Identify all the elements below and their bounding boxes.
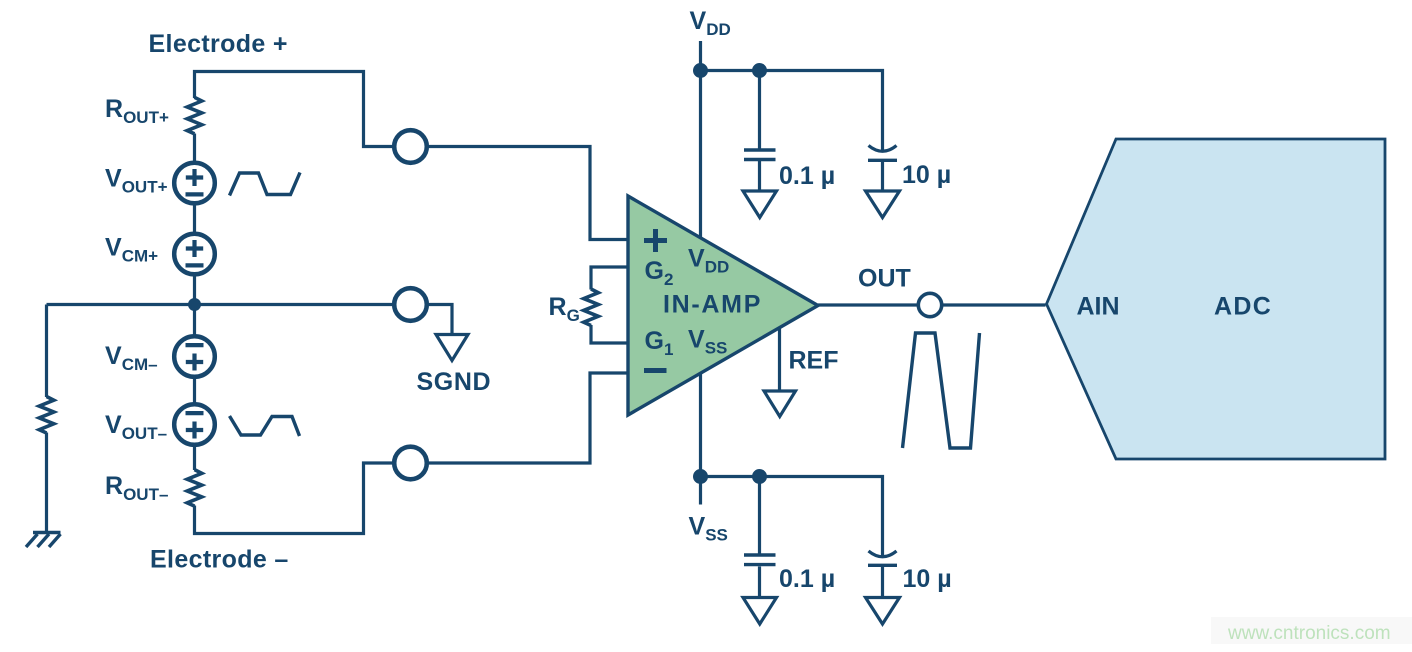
junction dot VSS right <box>752 469 767 484</box>
wire bottom 0.1u cap to ground <box>758 567 761 600</box>
wire left vertical lower to ground <box>45 433 48 534</box>
wire Vout- to Rout- <box>193 447 196 471</box>
wire left vertical upper <box>45 305 48 398</box>
op-amp U1 IN-AMP triangle <box>628 196 818 415</box>
svg-text:VCM–: VCM– <box>105 342 158 374</box>
wire VDD to 0.1u cap <box>758 71 761 149</box>
wire VDD stub into amp <box>699 41 702 239</box>
svg-text:REF: REF <box>789 347 839 375</box>
wire mid horizontal line <box>47 303 393 306</box>
junction dot mid <box>188 298 201 311</box>
connector circle top <box>394 130 427 163</box>
svg-text:Electrode +: Electrode + <box>149 30 288 58</box>
connector circle OUT <box>918 293 941 316</box>
svg-text:ADC: ADC <box>1214 293 1272 321</box>
wire Vout+ to Vcm+ <box>193 205 196 233</box>
svg-text:VDD: VDD <box>690 7 731 39</box>
svg-text:0.1 µ: 0.1 µ <box>779 162 835 190</box>
wire electrode+ top loop <box>195 72 393 147</box>
svg-text:VOUT–: VOUT– <box>105 411 167 443</box>
wire AIN <box>943 303 1046 306</box>
resistor ROUT- <box>187 470 202 507</box>
svg-text:VCM+: VCM+ <box>105 234 158 266</box>
svg-text:AIN: AIN <box>1077 293 1120 321</box>
svg-text:ROUT+: ROUT+ <box>105 95 169 127</box>
capacitor C bottom 10u plates <box>869 551 897 557</box>
wire from - connector to in-amp - input <box>429 373 628 463</box>
wire RG bottom bracket <box>591 325 628 343</box>
wire VSS to bottom 0.1u cap <box>758 477 761 554</box>
svg-text:VOUT+: VOUT+ <box>105 165 168 197</box>
source VOUT- (reversed) <box>174 404 215 445</box>
svg-text:RG: RG <box>549 293 580 325</box>
ground triangle top 0.1u <box>743 191 777 218</box>
wire 0.1u top cap to ground <box>758 161 761 193</box>
junction dot VSS left <box>693 469 708 484</box>
svg-text:VSS: VSS <box>689 513 728 545</box>
waveform trapezoid positive <box>230 173 301 196</box>
ground triangle top 10u <box>866 191 900 218</box>
svg-text:ROUT–: ROUT– <box>105 472 168 504</box>
svg-text:IN-AMP: IN-AMP <box>663 291 762 319</box>
connector circle bottom <box>394 447 427 480</box>
wire electrode- bottom loop <box>195 463 393 534</box>
svg-text:Electrode –: Electrode – <box>150 546 289 574</box>
junction dot VDD left <box>693 63 708 78</box>
resistor left (electrode impedance) <box>39 397 54 434</box>
wire junction to Vcm- <box>193 305 196 335</box>
wire Vcm- to Vout- <box>193 379 196 403</box>
wire mid connector to SGND <box>429 305 452 337</box>
wire Rout+ to Vout+ <box>193 134 196 162</box>
source VCM- (reversed) <box>174 336 215 377</box>
resistor ROUT+ <box>187 97 202 134</box>
svg-text:SGND: SGND <box>417 368 492 396</box>
wire from + connector to in-amp + input <box>429 147 628 240</box>
wire Vcm+ to mid junction <box>193 276 196 305</box>
wire OUT <box>818 303 917 306</box>
wire bottom 10u cap to ground <box>881 567 884 601</box>
source VCM+ <box>174 234 215 275</box>
ground triangle bottom 0.1u <box>743 598 777 625</box>
capacitor C bottom 0.1u plates <box>744 555 776 565</box>
watermark background <box>1211 617 1412 644</box>
wire 10u top cap to ground <box>881 162 884 195</box>
waveform square at OUT <box>903 333 980 448</box>
junction dot VDD right <box>752 63 767 78</box>
svg-text:OUT: OUT <box>858 265 911 293</box>
wire VSS from amp <box>699 373 702 505</box>
ground triangle REF <box>764 391 796 417</box>
chassis ground left <box>26 533 61 548</box>
wire RG top bracket <box>591 267 628 290</box>
in-amp plus input symbol <box>644 229 667 252</box>
svg-text:www.cntronics.com: www.cntronics.com <box>1227 623 1391 644</box>
SGND ground triangle <box>436 335 468 361</box>
ground triangle bottom 10u <box>866 598 900 625</box>
waveform trapezoid negative <box>230 416 300 436</box>
svg-text:10 µ: 10 µ <box>903 565 952 593</box>
wire REF pin <box>778 328 781 393</box>
ADC block <box>1047 139 1386 459</box>
source VOUT+ <box>174 163 215 204</box>
wire VSS rail <box>701 477 883 558</box>
wire VDD rail <box>701 71 883 153</box>
resistor RG <box>584 289 599 326</box>
svg-text:10 µ: 10 µ <box>902 161 951 189</box>
svg-text:0.1 µ: 0.1 µ <box>779 565 835 593</box>
in-amp minus input symbol <box>644 368 667 373</box>
connector circle mid <box>394 288 427 321</box>
capacitor C top 0.1u plates <box>744 150 776 160</box>
capacitor C top 10u plates <box>869 146 897 152</box>
